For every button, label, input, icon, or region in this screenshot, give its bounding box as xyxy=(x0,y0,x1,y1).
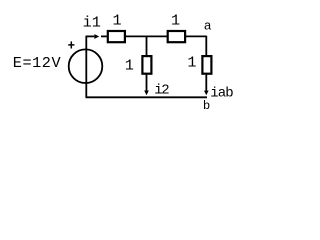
svg-text:i2: i2 xyxy=(154,82,169,98)
svg-text:1: 1 xyxy=(125,57,134,75)
svg-text:a: a xyxy=(204,19,212,34)
svg-text:E=12V: E=12V xyxy=(13,54,62,72)
svg-text:1: 1 xyxy=(113,11,122,29)
svg-text:b: b xyxy=(203,99,210,113)
svg-text:iab: iab xyxy=(210,86,233,102)
svg-text:1: 1 xyxy=(187,54,196,72)
svg-text:1: 1 xyxy=(171,11,180,29)
svg-text:i1: i1 xyxy=(83,14,101,32)
